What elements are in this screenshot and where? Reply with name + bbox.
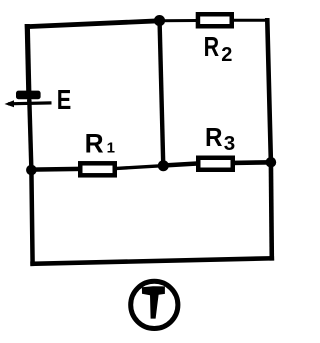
wire middle vertical xyxy=(160,22,164,164)
node middle junction xyxy=(158,160,169,171)
node top junction xyxy=(154,15,165,26)
resistor R3 xyxy=(198,158,233,170)
wire bottom horizontal xyxy=(33,258,272,264)
wire right vertical upper xyxy=(267,20,271,162)
svg-text:1: 1 xyxy=(107,140,115,157)
resistor R2 xyxy=(198,14,232,26)
label R2 xyxy=(204,31,233,66)
svg-text:2: 2 xyxy=(221,44,232,66)
resistor R1 xyxy=(80,163,115,175)
battery E xyxy=(5,91,52,108)
wire top junction to R2 xyxy=(160,19,197,22)
svg-text:R: R xyxy=(85,128,104,158)
svg-text:R: R xyxy=(204,31,220,62)
wire middle horizontal left xyxy=(31,167,79,172)
node right junction xyxy=(266,157,277,168)
wire middle junction to R3 xyxy=(163,164,197,166)
label R1 xyxy=(85,128,115,158)
svg-text:E: E xyxy=(57,84,72,115)
label R3 xyxy=(205,124,235,155)
figure number circle xyxy=(131,281,178,328)
wire left vertical upper xyxy=(27,27,29,92)
wire top horizontal right segment xyxy=(234,19,268,22)
svg-text:3: 3 xyxy=(224,132,235,155)
figure number 7 xyxy=(142,286,165,318)
wire right vertical lower xyxy=(269,162,274,258)
wire R1 to middle junction xyxy=(117,166,164,169)
wire left vertical middle xyxy=(29,102,31,170)
node left junction xyxy=(26,165,37,176)
wire left vertical lower xyxy=(31,170,32,264)
wire top horizontal left segment xyxy=(27,21,159,27)
svg-text:R: R xyxy=(205,124,223,152)
wire R3 to right junction xyxy=(234,160,271,165)
